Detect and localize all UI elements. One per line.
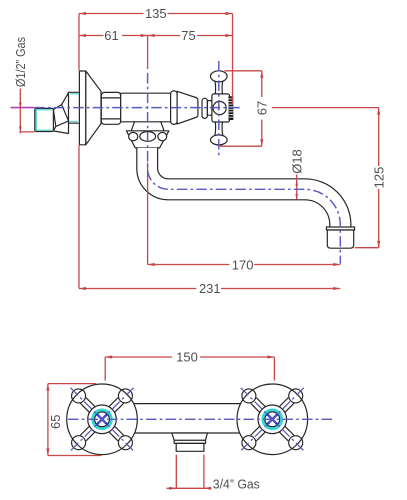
svg-text:135: 135 xyxy=(145,6,167,21)
svg-text:Ø18: Ø18 xyxy=(289,149,304,174)
svg-text:67: 67 xyxy=(254,101,269,115)
svg-text:150: 150 xyxy=(176,350,198,365)
svg-text:65: 65 xyxy=(48,415,63,429)
svg-text:231: 231 xyxy=(199,281,221,296)
svg-text:61: 61 xyxy=(104,28,118,43)
svg-text:75: 75 xyxy=(181,28,195,43)
svg-text:3/4” Gas: 3/4” Gas xyxy=(213,477,260,492)
svg-text:Ø1/2” Gas: Ø1/2” Gas xyxy=(13,37,28,87)
svg-text:125: 125 xyxy=(371,167,386,189)
svg-text:170: 170 xyxy=(232,258,254,273)
